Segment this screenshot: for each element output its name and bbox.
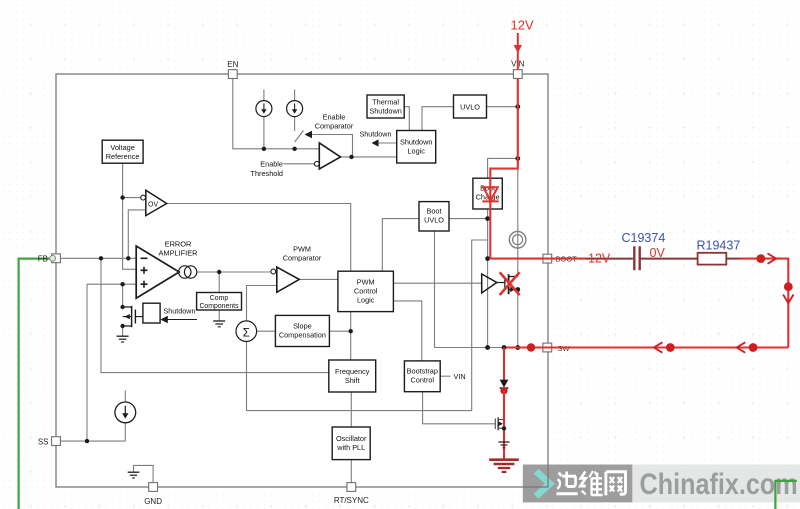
pin SS — [52, 437, 61, 446]
wire clamp fet drain from lower plus — [122, 284, 124, 307]
svg-text:Enable: Enable — [323, 113, 346, 122]
arrow current right — [768, 253, 777, 263]
wire shutdown arrow lead near shutdown logic — [377, 142, 397, 144]
diode boot charge (red) — [482, 187, 498, 201]
transistor sync FET — [495, 417, 504, 430]
node current dot right rail — [784, 282, 793, 291]
ground small black near sync fet — [498, 442, 509, 448]
wire VIN main down through probe to HS FET drain — [517, 169, 519, 277]
wire 12V supply red drop to VIN pin — [517, 33, 519, 70]
wire enable threshold lead — [284, 163, 315, 165]
svg-text:Frequency: Frequency — [335, 367, 370, 376]
box Shutdown Logic — [397, 131, 436, 164]
watermark CJK glyph xun — [556, 472, 577, 494]
svg-text:ERROR: ERROR — [165, 240, 192, 249]
svg-text:Components: Components — [199, 303, 239, 310]
svg-text:SS: SS — [38, 437, 49, 446]
wire OV lower input from FB line — [128, 210, 146, 258]
wire PWM comparator lower input from sigma — [247, 286, 277, 321]
box Boot Charge — [473, 178, 502, 209]
node current dot SW right — [749, 343, 758, 352]
watermark chevron logo — [536, 471, 550, 496]
box Oscillator with PLL — [332, 427, 370, 460]
wire boot charge bottom to BOOT node — [487, 209, 489, 259]
driver buffer triangle — [482, 274, 497, 293]
wire current source 1 stubs — [263, 90, 265, 149]
node SW red dot — [527, 343, 535, 351]
wire comp components drop — [218, 272, 220, 293]
wire PWM out2 to bootstrap control — [393, 301, 421, 361]
box PWM Control Logic — [338, 271, 394, 311]
wire lower plus down to SS line — [86, 284, 88, 441]
diode freewheel (black) — [500, 380, 509, 388]
arrow shutdown signal left — [372, 139, 379, 146]
box Slope Compensation — [275, 315, 329, 346]
arrow current left SW mid — [654, 342, 663, 352]
pin FB — [52, 254, 61, 263]
wire SS line — [61, 440, 126, 442]
node dot sync fet source — [502, 426, 506, 430]
svg-text:UVLO: UVLO — [424, 215, 444, 224]
svg-text:Control: Control — [411, 376, 435, 385]
ground power (dark red) — [489, 460, 519, 472]
box Boot UVLO — [419, 202, 449, 231]
node current dot boot — [756, 254, 765, 263]
arrow current down — [783, 295, 793, 304]
wire enable comparator output to shutdown logic — [341, 156, 397, 158]
wire boot UVLO right lead — [449, 218, 488, 220]
wire thermal shutdown to shutdown logic — [404, 107, 409, 131]
wire cap to resistor maroon — [640, 258, 698, 260]
svg-text:with PLL: with PLL — [336, 443, 365, 452]
arrow shutdown clamp left — [160, 316, 168, 324]
wire PWM comparator output — [299, 278, 338, 280]
svg-text:R19437: R19437 — [697, 239, 741, 253]
svg-text:Control: Control — [354, 286, 378, 295]
op-amp OV comparator — [141, 190, 167, 215]
svg-text:Oscillator: Oscillator — [336, 434, 367, 443]
summing node sigma — [236, 321, 257, 342]
svg-text:Chinafix.com: Chinafix.com — [640, 467, 798, 501]
svg-text:UVLO: UVLO — [460, 103, 480, 112]
wire low side branch red upper — [503, 348, 505, 381]
svg-text:EN: EN — [227, 60, 238, 69]
wire GND pin to internal ground — [134, 465, 154, 482]
svg-text:Compensation: Compensation — [279, 331, 326, 340]
wire HS FET source down to SW — [517, 290, 519, 348]
svg-text:Σ: Σ — [243, 327, 250, 339]
pin GND — [149, 483, 158, 492]
wire vref tap to OV bubble — [123, 197, 141, 199]
IC body border — [56, 74, 548, 487]
box Voltage Reference — [102, 140, 143, 163]
svg-text:Thermal: Thermal — [372, 98, 399, 107]
transistor HS power MOSFET (crossed out) — [497, 274, 518, 294]
wire FB green external left — [19, 259, 51, 509]
wire VIN red rail — [490, 78, 518, 258]
op-amp error amplifier — [136, 246, 179, 298]
wire SW red inside — [504, 346, 552, 348]
svg-text:Comparator: Comparator — [283, 254, 322, 263]
wire resistor right maroon — [726, 258, 739, 260]
svg-text:Logic: Logic — [407, 146, 425, 155]
svg-text:Reference: Reference — [106, 152, 140, 161]
current source I1 — [256, 101, 272, 117]
arrow supply current down — [514, 45, 522, 53]
wire low side branch red lower — [503, 391, 505, 460]
op-amp enable comparator — [314, 143, 340, 169]
transistor clamp MOSFET — [123, 306, 143, 327]
current source SS — [115, 402, 136, 423]
probe circle symbol — [509, 231, 526, 248]
box Shutdown (clamp) — [143, 303, 160, 323]
wire SS current source stub and lead — [124, 390, 126, 441]
wire EN pin down and right to enable comparator — [233, 78, 319, 148]
wire FB drop to frequency shift — [101, 258, 329, 372]
svg-text:PWM: PWM — [357, 277, 375, 286]
ground clamp fet — [117, 336, 129, 342]
wire PWM out1 to driver — [393, 282, 481, 284]
pin BOOT — [543, 254, 552, 263]
wire OV output to PWM control logic — [167, 204, 351, 272]
svg-text:Voltage: Voltage — [110, 143, 134, 152]
node red dot below diode — [500, 387, 507, 394]
wire frequency shift to oscillator — [350, 392, 352, 427]
svg-text:GND: GND — [144, 497, 162, 506]
watermark CJK glyph wei — [580, 471, 602, 496]
junction dots (black) — [85, 104, 520, 443]
svg-text:AMPLIFIER: AMPLIFIER — [158, 249, 197, 258]
svg-text:Threshold: Threshold — [251, 169, 283, 178]
pin EN — [228, 70, 237, 79]
svg-text:Shutdown: Shutdown — [360, 130, 392, 139]
wire FB green external bottom right — [775, 481, 796, 509]
arrow enable comparator to switch — [305, 131, 313, 139]
wire boot UVLO left lead to PWM control logic — [382, 219, 419, 272]
svg-text:Logic: Logic — [357, 295, 375, 304]
node FB wire terminal — [50, 255, 56, 261]
box Bootstrap Control — [404, 361, 440, 392]
svg-text:Enable: Enable — [260, 159, 283, 168]
box Thermal Shutdown — [367, 95, 404, 118]
wire enable comparator feedback to switch — [310, 135, 353, 157]
pin VIN — [513, 70, 522, 79]
watermark dark box — [523, 465, 633, 503]
ground GND pin symbol — [128, 472, 140, 478]
svg-text:VIN: VIN — [454, 372, 466, 381]
svg-text:OV: OV — [148, 202, 158, 209]
wire bootstrap control bottom to sync fet gate — [423, 392, 495, 424]
wire BOOT red line to pin — [490, 258, 552, 260]
svg-text:Shutdown: Shutdown — [164, 307, 196, 316]
pin RT/SYNC — [347, 483, 356, 492]
box Comp Components — [197, 293, 242, 311]
svg-text:PWM: PWM — [293, 245, 311, 254]
wire bootstrap control VIN lead — [440, 375, 450, 377]
wire slope compensation to PWM bottom junction — [329, 330, 350, 332]
wire BOOT maroon segment left of cap — [586, 258, 633, 260]
wire voltage reference down to error amp plus input — [123, 163, 137, 269]
box UVLO — [454, 95, 487, 118]
svg-text:12V: 12V — [511, 18, 534, 33]
op-amp PWM comparator — [271, 267, 299, 292]
svg-text:RT/SYNC: RT/SYNC — [334, 496, 369, 505]
wire UVLO left to shutdown logic — [422, 107, 454, 131]
svg-text:FB: FB — [38, 254, 48, 263]
watermark CJK glyph wang — [606, 472, 626, 496]
current source I2 — [287, 101, 303, 117]
current mirror symbol — [179, 266, 197, 278]
wire UVLO right to VIN line — [487, 106, 518, 108]
wire VIN dot gray branch to boot charge top — [488, 158, 518, 178]
svg-text:Shutdown: Shutdown — [400, 137, 432, 146]
wire comp components ground stem — [218, 310, 220, 321]
node SW diode branch junction — [502, 345, 507, 350]
box Frequency Shift — [329, 360, 376, 392]
svg-text:12V: 12V — [588, 252, 611, 266]
wire boot UVLO bottom to SW line — [434, 231, 436, 348]
X mark disabled HS FET (red cross) — [500, 272, 520, 295]
wire PWM bottom to frequency shift — [350, 312, 352, 360]
wire oscillator to RT/SYNC pin — [350, 460, 352, 483]
svg-text:Comparator: Comparator — [315, 122, 354, 131]
svg-text:Shift: Shift — [345, 376, 360, 385]
svg-text:Bootstrap: Bootstrap — [407, 367, 438, 376]
ground comp components — [213, 321, 225, 327]
wire BOOT node down to SW — [487, 259, 489, 348]
wire FB line to error amp minus input — [61, 257, 137, 259]
IC body fill — [56, 74, 548, 487]
pin SW — [543, 343, 552, 352]
wire error amp output to PWM comparator — [197, 271, 271, 273]
svg-text:Slope: Slope — [293, 322, 312, 331]
wire error amp lower plus line — [87, 283, 136, 285]
svg-text:Comp: Comp — [210, 295, 229, 302]
wire SW line internal — [435, 347, 505, 349]
wire current source 2 stub and switch — [295, 90, 304, 143]
svg-text:Shutdown: Shutdown — [369, 107, 401, 116]
arrow current left SW right — [737, 342, 746, 352]
resistor R19437 — [698, 253, 727, 265]
wire sigma to slope compensation — [257, 330, 276, 332]
node current dot SW mid — [666, 343, 675, 352]
wire sigma bottom current sense loop — [247, 240, 488, 411]
capacitor C19374 — [634, 246, 639, 270]
watermark light box — [632, 465, 800, 503]
svg-text:C19374: C19374 — [622, 231, 666, 245]
wire SW external red — [552, 346, 788, 348]
wire BOOT external red — [552, 258, 586, 260]
svg-text:Boot: Boot — [426, 206, 441, 215]
wire resistor to corner red — [740, 259, 789, 348]
wire clamp fet source to ground — [122, 326, 124, 336]
